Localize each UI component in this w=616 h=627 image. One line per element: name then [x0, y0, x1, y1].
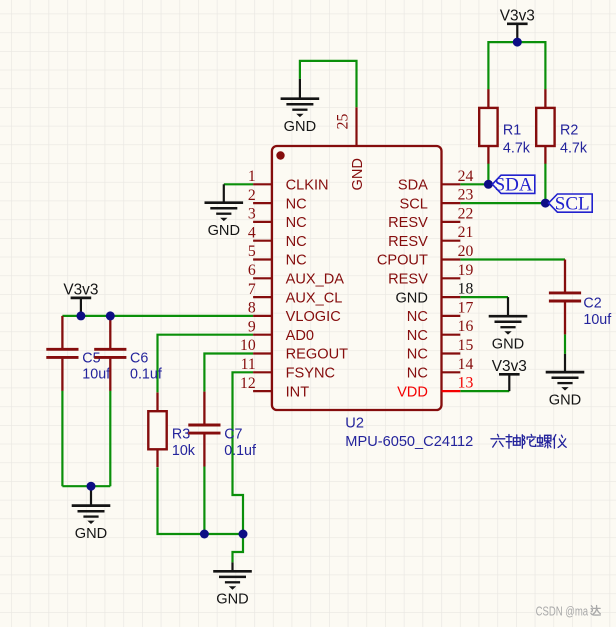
power V3v3 left [63, 282, 98, 316]
svg-text:16: 16 [458, 318, 474, 335]
svg-text:NC: NC [407, 309, 428, 325]
svg-text:17: 17 [458, 299, 474, 316]
svg-text:GND: GND [75, 526, 107, 542]
svg-text:4: 4 [248, 224, 256, 241]
pin 21 (RESV) [388, 224, 473, 250]
svg-text:2: 2 [248, 187, 256, 204]
svg-text:23: 23 [458, 187, 474, 204]
svg-text:CPOUT: CPOUT [377, 253, 428, 269]
svg-text:RESV: RESV [388, 215, 428, 231]
svg-text:15: 15 [458, 337, 474, 354]
svg-text:AUX_CL: AUX_CL [286, 290, 343, 306]
ground top (pin25) [281, 79, 320, 135]
ground pin1 [205, 184, 244, 239]
wire R2 bottom to SCL node [544, 163, 546, 203]
svg-text:24: 24 [458, 168, 474, 185]
capacitor C7 [188, 392, 220, 467]
pin 6 (AUX_DA) [248, 262, 344, 288]
pin 12 (INT) [240, 375, 309, 401]
svg-text:GND: GND [549, 392, 581, 408]
wire pin24 to node SDA [460, 183, 488, 185]
svg-text:GND: GND [208, 223, 240, 239]
svg-text:22: 22 [458, 205, 474, 222]
net flag SCL [549, 193, 593, 214]
pin 4 (NC) [248, 224, 307, 250]
pin 7 (AUX_CL) [248, 281, 343, 307]
wire bottom rail to GND [233, 534, 244, 562]
pin 17 (NC) [407, 299, 474, 325]
resistor R2 [536, 89, 554, 164]
svg-text:14: 14 [458, 356, 474, 373]
svg-text:NC: NC [286, 234, 307, 250]
svg-text:SDA: SDA [398, 178, 428, 194]
svg-text:NC: NC [407, 347, 428, 363]
svg-text:19: 19 [458, 262, 474, 279]
svg-text:0.1uf: 0.1uf [130, 367, 162, 383]
net flag SDA [492, 175, 535, 196]
svg-text:NC: NC [407, 366, 428, 382]
svg-text:NC: NC [407, 328, 428, 344]
wire V3v3 rail to R1/R2 tops [488, 42, 545, 89]
pin 19 (RESV) [388, 262, 473, 288]
svg-text:GND: GND [395, 290, 427, 306]
junction C6 top [106, 311, 115, 320]
svg-text:AD0: AD0 [286, 328, 314, 344]
junction V3v3 left [76, 311, 85, 320]
pin 20 (CPOUT) [377, 243, 474, 269]
svg-text:9: 9 [248, 318, 256, 335]
svg-text:RESV: RESV [388, 272, 428, 288]
wire pin9 AD0 to R3 [158, 335, 254, 393]
pin 14 (NC) [407, 356, 474, 382]
pin 1 (CLKIN) [248, 168, 329, 194]
wire pin25 to GND top [300, 61, 357, 107]
svg-text:4.7k: 4.7k [560, 141, 588, 157]
svg-text:V3v3: V3v3 [63, 282, 98, 299]
svg-text:V3v3: V3v3 [500, 8, 535, 25]
svg-text:C2: C2 [583, 296, 601, 312]
svg-text:7: 7 [248, 281, 256, 298]
svg-text:GND: GND [492, 337, 524, 353]
ground pin18 [489, 297, 528, 352]
pin 9 (AD0) [248, 318, 314, 344]
power V3v3 top right [500, 8, 535, 43]
wire pin18 to GND [460, 296, 508, 298]
wire C6 bottom to ground rail [109, 391, 111, 487]
svg-text:RESV: RESV [388, 234, 428, 250]
power V3v3 at VDD pin13 [492, 358, 527, 391]
ground bottom middle [213, 562, 252, 607]
wire pin10 REGOUT to C7 [204, 354, 253, 392]
svg-text:R2: R2 [560, 123, 578, 139]
svg-text:INT: INT [286, 384, 310, 400]
svg-text:R1: R1 [503, 123, 521, 139]
pin 3 (NC) [248, 206, 307, 232]
svg-text:12: 12 [240, 375, 256, 392]
capacitor C2 [549, 260, 581, 335]
wire C7 bottom to bottom rail [203, 467, 205, 535]
resistor R1 [479, 89, 497, 164]
wire R1 bottom to SDA node [487, 163, 489, 184]
junction node SCL [541, 199, 550, 208]
svg-text:GND: GND [284, 119, 316, 135]
ground C2 [546, 354, 585, 409]
svg-text:SCL: SCL [555, 193, 590, 214]
pin 11 (FSYNC) [241, 356, 335, 382]
svg-text:10uf: 10uf [583, 312, 611, 328]
pin 2 (NC) [248, 187, 307, 213]
svg-text:FSYNC: FSYNC [286, 366, 335, 382]
svg-text:SCL: SCL [400, 196, 428, 212]
svg-text:CLKIN: CLKIN [286, 178, 329, 194]
junction bottom rail C7 [200, 530, 209, 539]
svg-text:VLOGIC: VLOGIC [286, 309, 341, 325]
junction node SDA [484, 180, 493, 189]
svg-text:CSDN @ma: CSDN @ma [536, 605, 589, 619]
capacitor C5 [46, 316, 78, 391]
pin 10 (REGOUT) [240, 337, 348, 363]
svg-text:VDD: VDD [397, 384, 428, 400]
wire R3 bottom to bottom rail [158, 467, 244, 534]
svg-text:NC: NC [286, 253, 307, 269]
wire pin20 CPOUT to C2 [460, 258, 565, 260]
watermark CSDN @ma da [536, 605, 601, 619]
svg-text:V3v3: V3v3 [492, 358, 527, 375]
junction ground rail left [87, 482, 96, 491]
svg-text:REGOUT: REGOUT [286, 347, 349, 363]
svg-text:NC: NC [286, 196, 307, 212]
svg-text:10uf: 10uf [82, 367, 110, 383]
svg-text:11: 11 [241, 356, 256, 373]
svg-text:10k: 10k [172, 443, 196, 459]
svg-text:AUX_DA: AUX_DA [286, 272, 345, 288]
pin 18 (GND) [395, 281, 473, 307]
svg-text:GND: GND [216, 592, 248, 608]
label 六轴陀螺仪 (six-axis gyroscope) [491, 434, 566, 448]
svg-text:U2: U2 [345, 415, 364, 431]
svg-text:10: 10 [240, 337, 256, 354]
wire ground rail C5-C6 [62, 485, 110, 487]
pin 13 (VDD) [397, 375, 473, 401]
svg-text:3: 3 [248, 206, 256, 223]
ground C5/C6 [72, 486, 111, 542]
wire pin23 to node SCL [460, 202, 545, 204]
wire pin13 VDD to V3v3 [460, 390, 509, 392]
svg-text:R3: R3 [172, 427, 190, 443]
pin 22 (RESV) [388, 205, 473, 231]
pin 5 (NC) [248, 243, 307, 269]
capacitor C6 [94, 316, 126, 391]
pin 23 (SCL) [400, 187, 474, 213]
svg-text:0.1uf: 0.1uf [224, 443, 256, 459]
svg-text:21: 21 [458, 224, 474, 241]
IC U2 body MPU-6050 [272, 146, 442, 410]
wire V3v3 rail to pin8 VLOGIC [62, 315, 253, 317]
svg-text:GND: GND [350, 158, 366, 190]
wire pin11 FSYNC to bottom rail [233, 372, 254, 534]
svg-text:MPU-6050_C24112: MPU-6050_C24112 [345, 434, 473, 450]
svg-text:13: 13 [458, 375, 474, 392]
svg-text:5: 5 [248, 243, 256, 260]
pin 25 (GND top) [335, 107, 367, 190]
junction bottom rail pin11 [239, 530, 248, 539]
pin 16 (NC) [407, 318, 474, 344]
resistor R3 [148, 393, 166, 468]
pin 8 (VLOGIC) [248, 300, 341, 326]
svg-text:4.7k: 4.7k [503, 141, 531, 157]
svg-text:6: 6 [248, 262, 256, 279]
svg-text:8: 8 [248, 300, 256, 317]
svg-text:25: 25 [335, 114, 352, 130]
svg-text:C6: C6 [130, 350, 148, 366]
svg-text:NC: NC [286, 215, 307, 231]
wire pin1 to GND [224, 183, 253, 185]
svg-text:18: 18 [458, 281, 474, 298]
junction V3v3 rail [513, 38, 522, 47]
svg-text:1: 1 [248, 168, 256, 185]
wire C5 bottom to ground rail [61, 391, 63, 487]
pin 24 (SDA) [398, 168, 474, 194]
svg-text:SDA: SDA [495, 175, 533, 196]
svg-text:20: 20 [458, 243, 474, 260]
svg-text:C7: C7 [224, 427, 242, 443]
pin 15 (NC) [407, 337, 474, 363]
wire C2 bottom to GND [564, 334, 566, 354]
